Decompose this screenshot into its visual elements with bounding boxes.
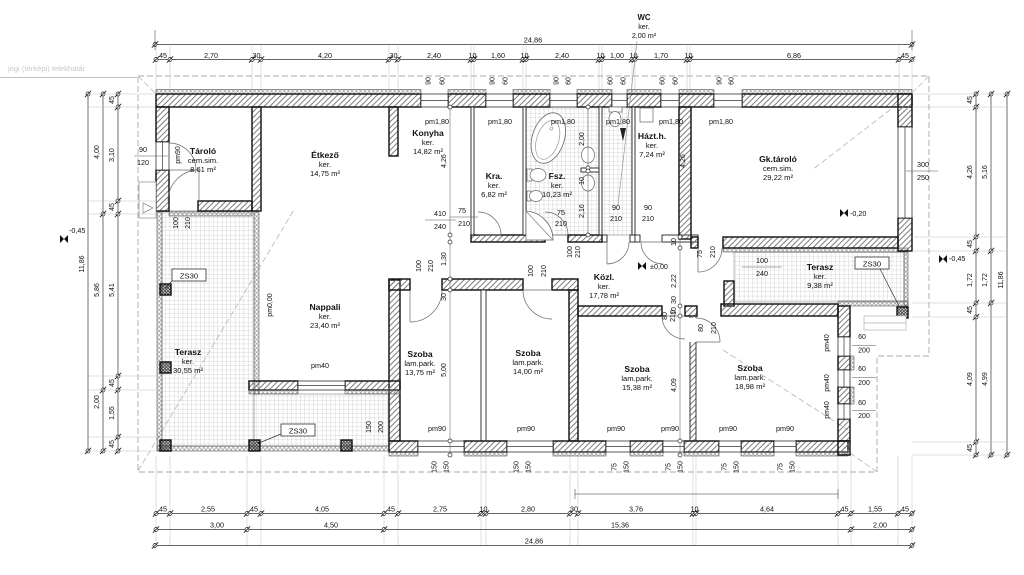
property boundary line (telekhatar) [0,77,137,79]
svg-text:pm0,00: pm0,00 [267,293,274,316]
svg-text:90: 90 [426,77,433,85]
svg-text:ker.: ker. [814,272,826,281]
svg-text:2,80: 2,80 [521,505,535,514]
svg-text:200: 200 [858,380,870,387]
roof hip diagonal top-right [913,76,929,92]
bottom dimension row 2 [155,529,913,531]
svg-text:9,38 m²: 9,38 m² [807,281,833,290]
roof hip diagonal bottom-right [723,350,848,430]
svg-text:240: 240 [434,222,446,231]
svg-text:3,00: 3,00 [210,521,224,530]
svg-text:10: 10 [671,238,678,246]
divider wall Szoba 13,75 / 14,00 [481,290,486,441]
bedroom wing right wall pieces with windows [838,306,850,337]
svg-text:2,55: 2,55 [201,505,215,514]
garage bottom wall [723,237,898,248]
svg-text:210: 210 [541,265,548,277]
WC tiled floor [602,107,632,235]
svg-text:4,26: 4,26 [441,154,448,168]
svg-text:4,09: 4,09 [671,378,678,392]
svg-text:150: 150 [514,461,521,473]
svg-text:30: 30 [390,51,398,60]
svg-text:1,30: 1,30 [441,252,448,266]
garage gate opening [898,127,912,218]
svg-text:pm40: pm40 [824,401,831,419]
svg-text:Szoba: Szoba [515,348,541,358]
left dimension column [87,94,89,451]
svg-text:pm1,80: pm1,80 [488,117,512,126]
svg-text:ker.: ker. [422,138,434,147]
svg-text:2,16: 2,16 [579,204,586,218]
svg-text:60: 60 [858,400,866,407]
svg-text:1,55: 1,55 [868,505,882,514]
svg-text:Étkező: Étkező [311,150,339,160]
ZS30 label box right [855,257,889,269]
svg-text:45: 45 [109,379,116,387]
Nappali bottom wall segment B [345,381,400,390]
svg-text:15,38 m²: 15,38 m² [622,383,652,392]
svg-text:ker.: ker. [638,22,650,31]
right wall windows pm40 [838,337,850,356]
svg-text:14,82 m²: 14,82 m² [413,147,443,156]
toilet in Fsz [527,169,532,181]
svg-text:Nappali: Nappali [309,302,340,312]
svg-text:75: 75 [612,463,619,471]
svg-text:5,41: 5,41 [109,283,116,297]
svg-text:±0,00: ±0,00 [650,262,668,271]
svg-text:4,50: 4,50 [324,521,338,530]
svg-text:45: 45 [967,96,974,104]
Szoba 15,38 top wall [578,306,662,316]
svg-text:210: 210 [185,217,192,229]
svg-text:pm90: pm90 [428,424,446,433]
svg-text:pm40: pm40 [311,361,329,370]
garage right wall top piece [898,94,912,127]
door corridor to Fsz [545,212,568,235]
svg-text:pm90: pm90 [175,146,182,164]
svg-text:4,05: 4,05 [315,505,329,514]
svg-text:Szoba: Szoba [407,349,433,359]
svg-text:2,75: 2,75 [433,505,447,514]
top wall windows [421,94,448,107]
svg-text:18,98 m²: 18,98 m² [735,382,765,391]
steps right terrace [864,316,906,323]
svg-text:45: 45 [109,203,116,211]
svg-text:Közl.: Közl. [594,272,615,282]
svg-text:60: 60 [729,77,736,85]
svg-text:75: 75 [666,463,673,471]
svg-text:lam.park.: lam.park. [734,373,765,382]
post ZS30 bottom row 2 [249,440,260,451]
corridor to right terrace doorway stub [691,237,698,248]
svg-text:45: 45 [159,51,167,60]
interior chain x=680 [679,232,681,455]
svg-text:Fsz.: Fsz. [549,171,566,181]
bottom dimension row 1 [155,513,913,515]
svg-text:ZS30: ZS30 [289,427,307,436]
svg-text:60: 60 [660,77,667,85]
svg-text:45: 45 [901,505,909,514]
svg-text:150: 150 [444,461,451,473]
left terrace tiled floor [162,212,254,446]
svg-text:2,00: 2,00 [873,521,887,530]
svg-text:2,00: 2,00 [94,395,101,409]
svg-text:150: 150 [432,461,439,473]
svg-text:90: 90 [490,77,497,85]
Etkezo/Konyha stub wall [389,107,398,156]
shower in Fsz [526,211,553,240]
svg-text:75: 75 [697,250,704,258]
svg-text:15,36: 15,36 [611,521,629,530]
bedroom wing top wall right part [721,304,838,316]
thin wall WC/Hazt.h [632,107,635,235]
svg-text:60: 60 [858,366,866,373]
left wall window pm90 [156,142,169,170]
svg-text:pm90: pm90 [776,424,794,433]
svg-text:Szoba: Szoba [624,364,650,374]
svg-text:5,86: 5,86 [94,283,101,297]
svg-text:2,40: 2,40 [555,51,569,60]
top dimension row segments [155,59,912,61]
svg-text:150: 150 [678,461,685,473]
door corridor to Szoba 14,00 [523,290,552,319]
post ZS30 bottom row 1 [160,440,171,451]
top exterior wall piers [156,90,421,95]
svg-text:3,10: 3,10 [109,148,116,162]
svg-text:pm40: pm40 [824,334,831,352]
svg-text:90: 90 [612,203,620,212]
svg-text:60: 60 [858,334,866,341]
svg-text:4,26: 4,26 [967,165,974,179]
bathroom Fsz tiled floor [526,107,599,235]
left horizontal guide lines [88,93,156,95]
bottom exterior wall piers [389,441,418,452]
corridor / bedroom top wall (left part) [389,279,410,290]
svg-text:pm90: pm90 [517,424,535,433]
svg-text:4,64: 4,64 [760,505,774,514]
svg-text:30: 30 [570,505,578,514]
svg-text:14,75 m²: 14,75 m² [310,169,340,178]
svg-text:1,72: 1,72 [967,273,974,287]
svg-text:410: 410 [434,209,446,218]
door Tarolo from terrace [168,170,199,201]
svg-text:80: 80 [662,312,669,320]
svg-text:pm1,80: pm1,80 [425,117,449,126]
right terrace left wall [724,281,734,306]
svg-text:2,00: 2,00 [579,132,586,146]
ZS30 label box left [172,269,206,281]
bottom wall windows pm90 [418,441,464,452]
post ZS30 bottom row 3 [341,440,352,451]
svg-text:10: 10 [685,51,693,60]
washing machine in Hazt.h [640,108,653,122]
svg-text:1,70: 1,70 [654,51,668,60]
svg-text:pm90: pm90 [719,424,737,433]
garage right wall bottom piece [898,218,912,251]
svg-text:200: 200 [858,413,870,420]
top dimension row overall 24,86 [155,44,912,46]
black door marker WC [620,128,626,141]
thin wall Kamra/Fsz [523,107,526,235]
right dimension column [975,94,977,455]
WC bottom wall stubs [602,235,607,242]
guide lines top [155,46,157,93]
svg-text:8,61 m²: 8,61 m² [190,165,216,174]
svg-text:4,09: 4,09 [967,372,974,386]
svg-text:150: 150 [624,461,631,473]
roof hip diagonal bottom-left [138,208,295,471]
svg-text:pm1,80: pm1,80 [551,117,575,126]
svg-text:10,23 m²: 10,23 m² [542,190,572,199]
svg-text:4,20: 4,20 [318,51,332,60]
thin wall Fsz/WC [599,107,602,235]
svg-text:7,24 m²: 7,24 m² [639,150,665,159]
svg-text:10: 10 [480,505,488,514]
svg-text:1,55: 1,55 [109,406,116,420]
left exterior wall [156,107,169,142]
door in left wall [169,143,196,170]
door corridor to right terrace [698,248,722,272]
post ZS30 right terrace [897,307,908,318]
svg-text:WC: WC [638,13,651,22]
svg-text:pm1,80: pm1,80 [606,117,630,126]
divider wall Szoba 14,00 / 15,38 [569,290,578,441]
svg-text:Kra.: Kra. [486,171,503,181]
bottom auxiliary line [575,493,838,495]
svg-text:ZS30: ZS30 [863,260,881,269]
svg-text:pm90: pm90 [661,424,679,433]
svg-text:30: 30 [253,51,261,60]
svg-text:ZS30: ZS30 [180,272,198,281]
svg-text:jogi (térképi) telekhatár: jogi (térképi) telekhatár [7,64,86,73]
svg-text:Házt.h.: Házt.h. [638,131,666,141]
svg-text:24,86: 24,86 [525,537,544,546]
door to Szoba 18,98 [696,318,720,342]
door corridor to Szoba 13,75 [410,290,442,322]
svg-text:-0,45: -0,45 [69,226,85,235]
svg-text:120: 120 [137,158,149,167]
door corridor to Szoba 15,38 [662,316,685,339]
svg-text:cem.sim.: cem.sim. [763,164,793,173]
svg-text:100: 100 [173,217,180,229]
svg-text:24,86: 24,86 [524,36,543,45]
svg-text:75: 75 [458,206,466,215]
svg-text:150: 150 [790,461,797,473]
svg-text:lam.park.: lam.park. [404,359,435,368]
svg-text:23,40 m²: 23,40 m² [310,321,340,330]
left terrace edge strips [157,212,162,451]
svg-text:6,82 m²: 6,82 m² [481,190,507,199]
svg-text:150: 150 [734,461,741,473]
svg-text:lam.park.: lam.park. [512,358,543,367]
svg-text:45: 45 [901,51,909,60]
svg-text:1,60: 1,60 [491,51,505,60]
svg-text:ker.: ker. [551,181,563,190]
svg-text:90: 90 [139,145,147,154]
svg-text:29,22 m²: 29,22 m² [763,173,793,182]
svg-text:240: 240 [756,269,768,278]
svg-text:75: 75 [722,463,729,471]
svg-text:-0,45: -0,45 [949,254,965,263]
svg-text:4,26: 4,26 [680,154,687,168]
living room L-wall / bedroom wing left wall [389,280,400,441]
right terrace edge strips [723,248,908,252]
svg-text:17,78 m²: 17,78 m² [589,291,619,300]
svg-text:ker.: ker. [488,181,500,190]
svg-text:10: 10 [691,505,699,514]
svg-text:45: 45 [109,96,116,104]
interior chain x=450 [449,107,451,455]
svg-text:11,86: 11,86 [79,255,86,272]
svg-text:Terasz: Terasz [807,262,834,272]
right horizontal guide lines [912,93,1007,95]
svg-text:10: 10 [630,51,638,60]
bidet in Fsz [527,191,531,201]
svg-text:30,55 m²: 30,55 m² [173,366,203,375]
svg-text:45: 45 [841,505,849,514]
divider wall Szoba 15,38 / 18,98 [690,316,696,441]
bath bottom wall segments [471,235,545,242]
right terrace tiled floor [734,252,904,302]
svg-text:60: 60 [621,77,628,85]
svg-text:60: 60 [608,77,615,85]
svg-text:30: 30 [671,296,678,304]
svg-text:100: 100 [567,246,574,258]
svg-text:2,40: 2,40 [427,51,441,60]
svg-text:90: 90 [554,77,561,85]
svg-text:pm40: pm40 [824,374,831,392]
svg-text:45: 45 [159,505,167,514]
svg-text:ker.: ker. [646,141,658,150]
garage left wall [679,107,691,239]
svg-text:210: 210 [642,214,654,223]
post ZS30 left edge middle [160,362,171,373]
toilet in WC [609,107,622,112]
guide lines bottom [155,456,157,546]
roof outline dashed [138,76,929,472]
svg-text:ker.: ker. [319,312,331,321]
svg-text:cem.sim.: cem.sim. [188,156,218,165]
svg-text:Gk.tároló: Gk.tároló [759,154,797,164]
svg-text:210: 210 [610,214,622,223]
svg-text:210: 210 [710,246,717,258]
svg-text:pm1,80: pm1,80 [709,117,733,126]
Hazt.h bottom wall [633,235,640,242]
svg-text:13,75 m²: 13,75 m² [405,368,435,377]
svg-text:4,00: 4,00 [94,145,101,159]
post ZS30 left edge upper [160,284,171,295]
entry step left [139,182,156,218]
svg-text:10: 10 [469,51,477,60]
roof hip diagonal top-left [138,76,157,95]
svg-text:150: 150 [366,421,373,433]
svg-text:45: 45 [109,440,116,448]
svg-text:60: 60 [440,77,447,85]
Nappali bottom window pm40 [298,381,345,390]
svg-text:pm1,80: pm1,80 [659,117,683,126]
svg-text:75: 75 [557,208,565,217]
svg-text:210: 210 [428,260,435,272]
thin wall Konyha/Kamra [471,107,474,235]
svg-text:45: 45 [967,444,974,452]
svg-text:-0,20: -0,20 [850,209,866,218]
svg-text:2,70: 2,70 [204,51,218,60]
svg-text:10: 10 [597,51,605,60]
svg-text:60: 60 [566,77,573,85]
svg-text:2,00 m²: 2,00 m² [632,31,657,40]
svg-text:10: 10 [579,177,586,185]
svg-text:10: 10 [671,307,678,315]
svg-text:45: 45 [967,240,974,248]
svg-text:100: 100 [528,265,535,277]
svg-text:6,86: 6,86 [787,51,801,60]
svg-text:ker.: ker. [182,357,194,366]
svg-text:ker.: ker. [319,160,331,169]
svg-text:Konyha: Konyha [412,128,444,138]
svg-text:210: 210 [555,219,567,228]
svg-text:100: 100 [756,256,768,265]
svg-text:45: 45 [387,505,395,514]
svg-text:Terasz: Terasz [175,347,202,357]
svg-text:80: 80 [698,324,705,332]
wall between Tarolo and Etkezo [252,107,261,211]
Nappali bottom wall segment A [249,381,298,390]
basin partition in Fsz [581,168,599,172]
Tarolo bottom wall [198,201,252,211]
svg-text:250: 250 [917,173,929,182]
bathtub in Fsz [525,108,572,167]
svg-text:Tároló: Tároló [190,146,216,156]
svg-text:90: 90 [717,77,724,85]
svg-text:Szoba: Szoba [737,363,763,373]
svg-text:210: 210 [458,219,470,228]
door corridor to Kamra [478,212,501,235]
svg-text:lam.park.: lam.park. [621,374,652,383]
svg-text:210: 210 [575,246,582,258]
svg-text:5,00: 5,00 [441,363,448,377]
svg-text:4,99: 4,99 [982,372,989,386]
svg-text:45: 45 [967,306,974,314]
svg-text:30: 30 [441,293,448,301]
svg-text:ker.: ker. [598,282,610,291]
svg-text:60: 60 [673,77,680,85]
svg-text:11,86: 11,86 [998,271,1005,288]
svg-text:10: 10 [521,51,529,60]
svg-text:100: 100 [416,260,423,272]
svg-text:300: 300 [917,160,929,169]
svg-text:3,76: 3,76 [629,505,643,514]
ZS30 label box bottom [281,424,315,436]
door corridor to Hazt.h [641,242,663,264]
svg-text:200: 200 [378,421,385,433]
svg-text:5,16: 5,16 [982,165,989,179]
svg-text:45: 45 [250,505,258,514]
svg-text:90: 90 [644,203,652,212]
svg-text:210: 210 [711,322,718,334]
svg-text:200: 200 [858,348,870,355]
washbasins in Fsz [582,147,595,163]
svg-text:14,00 m²: 14,00 m² [513,367,543,376]
svg-text:60: 60 [503,77,510,85]
svg-text:pm90: pm90 [607,424,625,433]
bottom dimension row 3 overall [155,545,913,547]
svg-text:2,22: 2,22 [671,274,678,288]
svg-text:1,00: 1,00 [610,51,624,60]
door corridor to WC [607,242,629,264]
svg-text:75: 75 [778,463,785,471]
svg-text:150: 150 [526,461,533,473]
svg-text:1,72: 1,72 [982,273,989,287]
